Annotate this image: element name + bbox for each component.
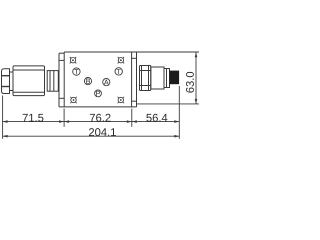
right edge step ticks — [132, 58, 137, 101]
adjuster hex nut (right side) — [140, 66, 151, 91]
left edge step ticks — [59, 60, 64, 98]
vertical dimension line 63.0 — [195, 52, 197, 104]
port T right — [115, 68, 122, 75]
arrows row 2 — [3, 135, 8, 138]
mounting bolt hole bottom-right — [118, 97, 125, 104]
adjuster collar — [164, 69, 170, 88]
port B — [84, 78, 91, 85]
port letter B — [86, 79, 90, 84]
extension line far left — [2, 96, 4, 139]
threaded neck between cylinder and valve plate — [47, 71, 58, 92]
hex cap nut (left end) — [2, 69, 10, 94]
collar between nut and body — [10, 72, 14, 91]
dimension line row 1 — [3, 121, 180, 123]
dim text 76.2 — [90, 114, 111, 122]
extension line at 71.5/76.2 boundary — [63, 109, 65, 127]
arrows row 1 — [3, 120, 8, 123]
valve body plate outline — [59, 52, 199, 107]
port letter A — [104, 80, 109, 85]
relief valve body cylinder — [13, 66, 45, 96]
mounting bolt hole top-right — [118, 57, 125, 64]
port letter T left — [74, 69, 78, 74]
dim text 56.4 — [146, 114, 167, 122]
dim text 63.0 rotated — [186, 72, 194, 93]
mounting bolt hole top-left — [70, 57, 77, 64]
adjuster knob (black) — [170, 71, 180, 85]
port letter P — [96, 91, 100, 96]
adjuster sleeve — [151, 67, 164, 89]
port A — [103, 79, 110, 86]
port letter T right — [117, 69, 121, 74]
dim text 71.5 — [23, 114, 44, 122]
extension line bottom right horizontal — [137, 103, 200, 105]
port P — [95, 90, 102, 97]
arrows vertical dim — [195, 52, 198, 57]
extension line at 76.2/56.4 boundary — [131, 109, 133, 127]
dimension line row 2 — [3, 135, 180, 137]
mounting bolt hole bottom-left — [70, 97, 77, 104]
port T left — [73, 68, 80, 75]
dim text 204.1 — [89, 128, 116, 136]
extension line far right — [178, 86, 180, 139]
